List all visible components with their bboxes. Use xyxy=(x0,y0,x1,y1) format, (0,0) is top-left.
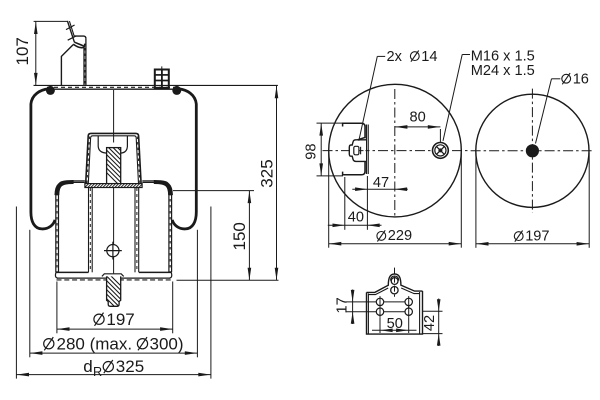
weld ticks on strap xyxy=(66,25,76,40)
bead right xyxy=(172,86,181,95)
extension lines diameter 229 xyxy=(329,153,462,248)
circle2 centerline horizontal xyxy=(471,150,595,152)
dimension diameter 197 right xyxy=(476,242,589,246)
top plate xyxy=(47,87,181,89)
bracket body xyxy=(61,45,73,86)
svg-text:R: R xyxy=(93,365,102,379)
label 2x dia 14 xyxy=(359,56,385,140)
svg-text:16: 16 xyxy=(573,71,589,87)
plate outline xyxy=(367,274,423,334)
M16 fitting xyxy=(433,143,449,159)
bellows outline right xyxy=(172,89,196,229)
svg-text:197: 197 xyxy=(106,310,134,329)
row extension lines (17) xyxy=(346,302,413,312)
circle2 outline xyxy=(476,94,589,207)
piston cavity xyxy=(98,136,106,153)
bracket channel in circle1 xyxy=(343,123,369,175)
center tab xyxy=(102,274,124,277)
dimension diameter 229 xyxy=(329,242,462,246)
svg-text:50: 50 xyxy=(387,316,403,332)
svg-text:150: 150 xyxy=(230,222,249,250)
svg-text:325: 325 xyxy=(257,159,276,187)
top plate upper line (with 107 + 325 extension) xyxy=(34,84,278,86)
bolt circle cross mark xyxy=(104,242,122,260)
extension lines diameter 197 right xyxy=(476,153,589,248)
dimension 17 xyxy=(351,290,355,325)
top profile xyxy=(367,274,423,292)
skirt rim plateau right xyxy=(142,181,154,183)
svg-text:M24 x 1.5: M24 x 1.5 xyxy=(471,63,535,79)
dimension 325 xyxy=(275,86,279,280)
dimension 47 xyxy=(352,187,408,191)
circle2 centerline vertical xyxy=(531,89,533,213)
label M16/M24 xyxy=(443,55,470,141)
extension line 150 top xyxy=(173,190,254,192)
svg-text:14: 14 xyxy=(421,49,437,65)
top bracket strap xyxy=(67,21,74,42)
svg-text:107: 107 xyxy=(13,37,32,65)
dimension diameter 280 max 300 xyxy=(30,351,198,355)
svg-text:229: 229 xyxy=(388,228,412,244)
dimension 50 xyxy=(372,318,417,333)
stud centerline xyxy=(161,66,163,89)
bottom rod (hatched) xyxy=(100,265,130,322)
dimension dR diameter 325 xyxy=(16,373,211,377)
circle1 outline xyxy=(329,84,462,217)
svg-text:47: 47 xyxy=(373,175,389,191)
label dia16 xyxy=(536,79,561,144)
bellows hump left xyxy=(55,181,73,195)
svg-text:325: 325 xyxy=(116,357,144,376)
dome inner arc xyxy=(391,276,399,281)
dimension 107 xyxy=(34,21,38,85)
dimension 40 xyxy=(328,224,382,228)
svg-text:197: 197 xyxy=(525,228,549,244)
svg-text:17: 17 xyxy=(334,297,350,313)
bottom plate xyxy=(56,271,172,273)
circle1 centerline vertical xyxy=(394,89,396,217)
svg-text:40: 40 xyxy=(348,210,364,226)
bead left xyxy=(46,86,55,95)
extension line top (107) xyxy=(34,20,68,22)
svg-text:42: 42 xyxy=(422,315,438,331)
piston flange xyxy=(84,183,147,189)
extension lines dR 325 xyxy=(16,207,211,379)
svg-text:M16 x 1.5: M16 x 1.5 xyxy=(471,49,535,65)
svg-text:80: 80 xyxy=(409,109,425,125)
skirt wall left xyxy=(56,192,59,272)
inner cylinder wall left xyxy=(89,188,93,273)
dimension 42 xyxy=(423,299,443,347)
extension lines diameter 280 xyxy=(30,230,198,357)
skirt rim plateau left xyxy=(73,181,85,183)
piston trapezoid outer xyxy=(86,133,141,183)
air stud M-fitting xyxy=(155,70,169,88)
svg-text:2x: 2x xyxy=(387,49,403,65)
svg-text:d: d xyxy=(83,357,92,376)
dimension 150 xyxy=(248,191,252,280)
extension line 325/150 bottom xyxy=(177,279,279,281)
bellows outline left xyxy=(31,89,55,229)
four holes with crosses xyxy=(376,298,412,315)
bracket fold lower xyxy=(73,44,84,48)
detail centerline xyxy=(394,268,396,297)
dimension 98 xyxy=(317,123,344,176)
piston rod (hatched) xyxy=(100,130,130,196)
inner cylinder wall right xyxy=(135,188,139,273)
bracket fold upper xyxy=(74,42,84,46)
piston trapezoid inner xyxy=(88,136,138,184)
extension lines diameter 197 left view xyxy=(57,282,173,334)
svg-text:300): 300) xyxy=(150,334,184,353)
bolt in bracket xyxy=(349,140,366,162)
skirt wall right xyxy=(169,192,172,272)
dimension diameter 197 left view xyxy=(57,327,173,331)
second hole xyxy=(391,287,398,294)
bellows hump right xyxy=(154,181,172,195)
top hole small xyxy=(391,278,398,285)
center hole dia 16 xyxy=(526,144,539,157)
circle1 centerline horizontal xyxy=(323,150,468,152)
piston wall dashes xyxy=(87,137,140,184)
svg-text:98: 98 xyxy=(304,143,320,159)
bracket hook tab top xyxy=(74,36,86,39)
centerline left view xyxy=(113,90,115,273)
extension lines 47/40 xyxy=(345,176,368,230)
svg-text:280 (max.: 280 (max. xyxy=(57,334,133,353)
bracket right wall double xyxy=(84,39,86,85)
dimension 80 xyxy=(395,125,441,142)
